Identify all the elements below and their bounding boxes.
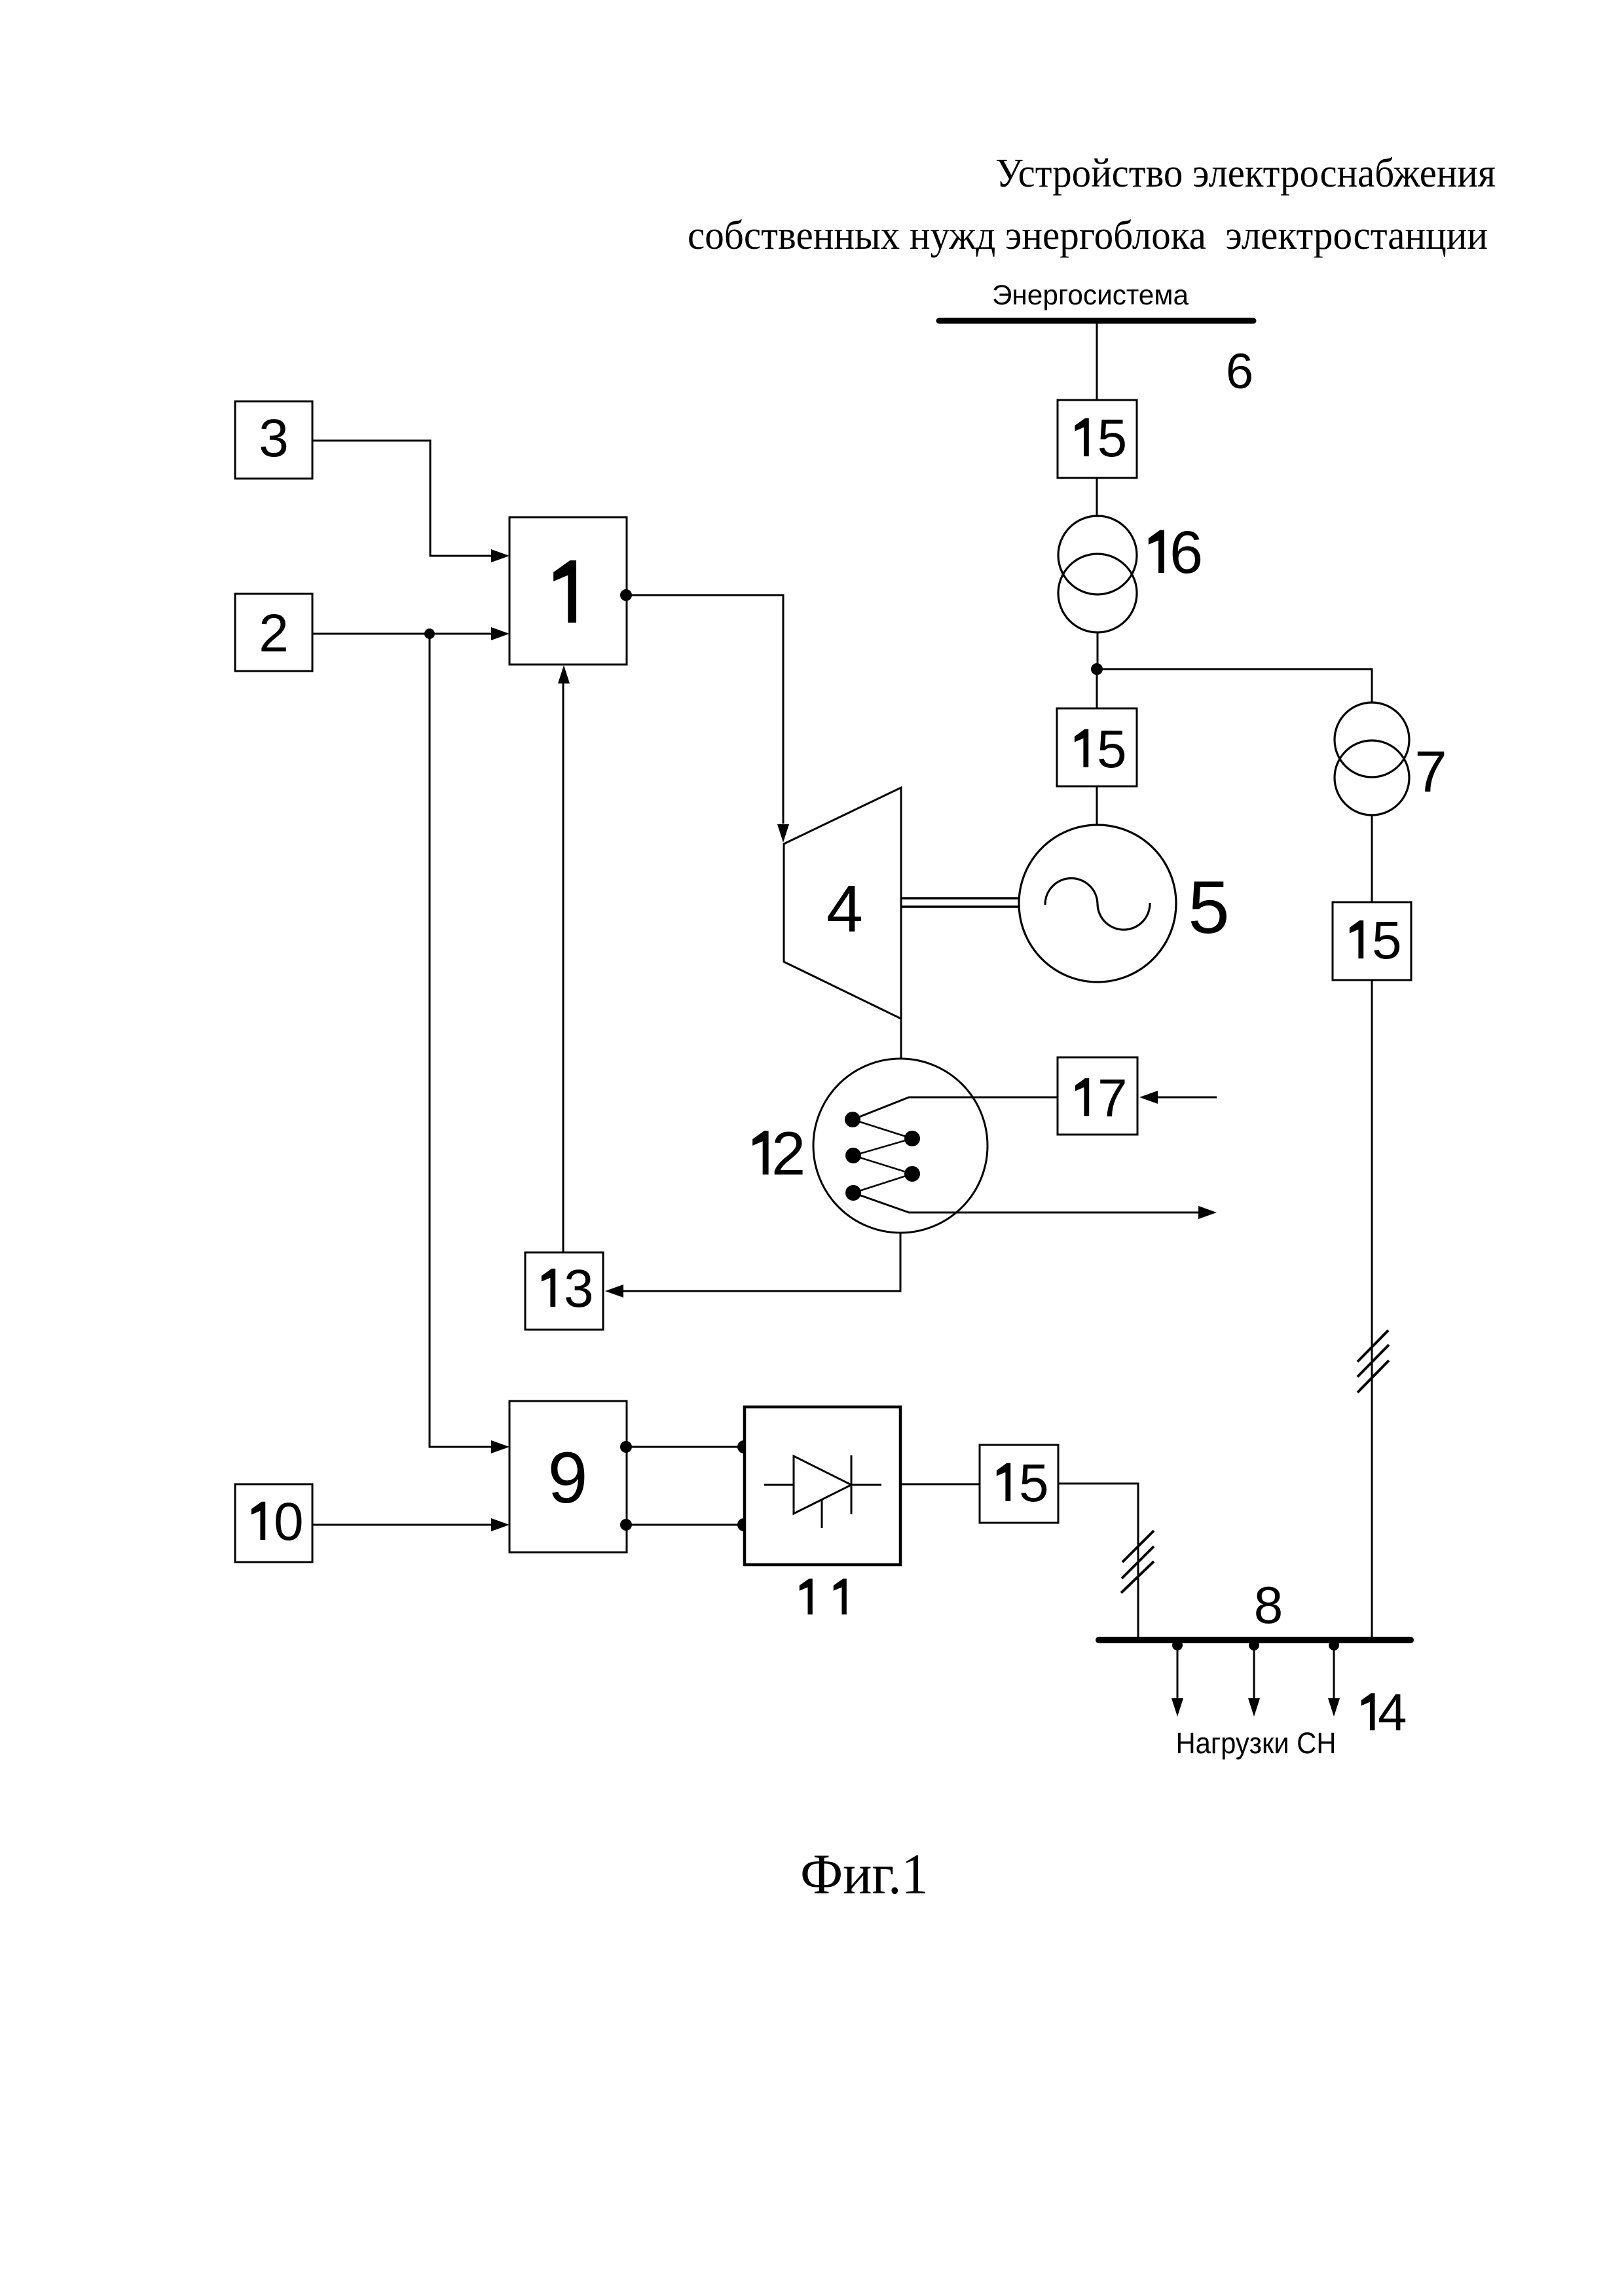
output node of block 1 [620, 589, 632, 601]
box 2 [235, 594, 312, 671]
wire breaker 15b to generator 5 [1096, 786, 1098, 826]
svg-text:Нагрузки СН: Нагрузки СН [1176, 1726, 1337, 1760]
svg-text:3: 3 [259, 409, 289, 468]
svg-text:6: 6 [1170, 519, 1203, 586]
bus 6 (Энергосистема busbar) [939, 318, 1253, 324]
block 13 [525, 1252, 603, 1330]
zigzag winding [853, 1120, 912, 1193]
svg-text:8: 8 [1254, 1576, 1283, 1634]
svg-text:4: 4 [1378, 1683, 1407, 1741]
wire node A to breaker 15b [1096, 669, 1098, 708]
svg-text:собственных нужд энергоблока: собственных нужд энергоблока электростан… [688, 213, 1488, 258]
svg-text:5: 5 [1097, 720, 1127, 779]
arrowhead into block 1 lower [491, 627, 509, 640]
wire node A to transformer 7 [1097, 669, 1372, 703]
breaker 15c [1333, 902, 1411, 980]
wire 13 to 1 [563, 683, 564, 1252]
wire breaker 15d to bus 8 [1058, 1484, 1138, 1637]
wire breaker 15c to bus 8 [1371, 980, 1373, 1637]
svg-text:5: 5 [1372, 911, 1402, 970]
exciter output wire with arrow [853, 1193, 1198, 1212]
shaft turbine-generator [902, 898, 1019, 907]
svg-text:5: 5 [1188, 866, 1229, 949]
breaker 15d [980, 1445, 1058, 1523]
svg-text:0: 0 [274, 1492, 304, 1552]
wire transformer 7 to breaker 15c [1371, 815, 1373, 902]
wire node B to regulator 9 [430, 634, 491, 1447]
output nodes of block 9 [620, 1441, 632, 1453]
svg-text:4: 4 [826, 873, 863, 946]
svg-text:Фиг.1: Фиг.1 [800, 1843, 929, 1906]
input arrow to block 17 [1158, 1097, 1217, 1099]
label 12 [752, 1131, 768, 1175]
wire bus6 to breaker 15a [1096, 321, 1098, 400]
wire 3 to 1 [312, 441, 491, 556]
brush dots [845, 1112, 920, 1201]
block 1 (regulator) [509, 517, 627, 665]
wire exciter to block 17 [853, 1097, 1058, 1120]
svg-text:5: 5 [1019, 1453, 1049, 1513]
label 11 [800, 1578, 813, 1614]
svg-text:9: 9 [547, 1438, 587, 1518]
svg-text:5: 5 [1098, 409, 1128, 468]
arrowhead into block 1 upper [491, 549, 509, 562]
svg-text:6: 6 [1226, 344, 1253, 399]
wire block 1 to turbine 4 [627, 595, 783, 824]
block 9 (regulator) [509, 1401, 627, 1552]
svg-text:Энергосистема: Энергосистема [992, 280, 1189, 311]
svg-text:7: 7 [1098, 1068, 1128, 1128]
arrowhead into block 9 lower [491, 1518, 509, 1531]
wire 2 to 1 [312, 633, 491, 635]
wire exciter to block 13 [623, 1233, 900, 1291]
exciter 12 [813, 1059, 987, 1233]
load feeder 2 [1248, 1640, 1260, 1717]
node A junction [1091, 663, 1103, 675]
svg-text:7: 7 [1414, 738, 1447, 804]
transformer 7 [1335, 702, 1409, 815]
node B on wire 2 [424, 629, 435, 639]
input nodes of rectifier 11 [737, 1440, 750, 1453]
svg-text:Устройство электроснабжения: Устройство электроснабжения [995, 151, 1496, 196]
transformer 16 [1058, 516, 1137, 632]
svg-text:2: 2 [771, 1119, 805, 1188]
wire 10 to 9 [312, 1524, 491, 1526]
breaker 15a [1058, 400, 1137, 478]
block 17 [1058, 1057, 1137, 1135]
box 10 [235, 1484, 312, 1562]
rectifier 11 [745, 1407, 900, 1565]
turbine 4 [784, 788, 901, 1019]
arrowhead into turbine [777, 824, 789, 843]
wire turbine to exciter 12 [900, 1019, 902, 1059]
load feeder 1 [1172, 1640, 1183, 1717]
wire breaker 15a to transformer 16 [1096, 478, 1098, 517]
box 3 [235, 401, 312, 479]
label 16 [1149, 530, 1164, 573]
svg-text:2: 2 [259, 604, 289, 663]
line-break hash marks right [1357, 1330, 1389, 1393]
bus 8 (CH busbar) [1099, 1637, 1411, 1643]
load feeder 3 [1328, 1640, 1340, 1717]
wires 9 to 11 [627, 1446, 744, 1448]
label 14 [1361, 1693, 1375, 1730]
wire 11 to breaker 15d [900, 1484, 980, 1485]
generator 5 [1019, 825, 1176, 982]
arrowhead into block 9 upper [491, 1440, 509, 1453]
svg-text:3: 3 [564, 1259, 594, 1319]
line-break hash marks left [1121, 1531, 1154, 1593]
wire transformer 16 to node A [1097, 632, 1099, 669]
thyristor symbol [764, 1455, 881, 1528]
breaker 15b [1057, 708, 1137, 786]
